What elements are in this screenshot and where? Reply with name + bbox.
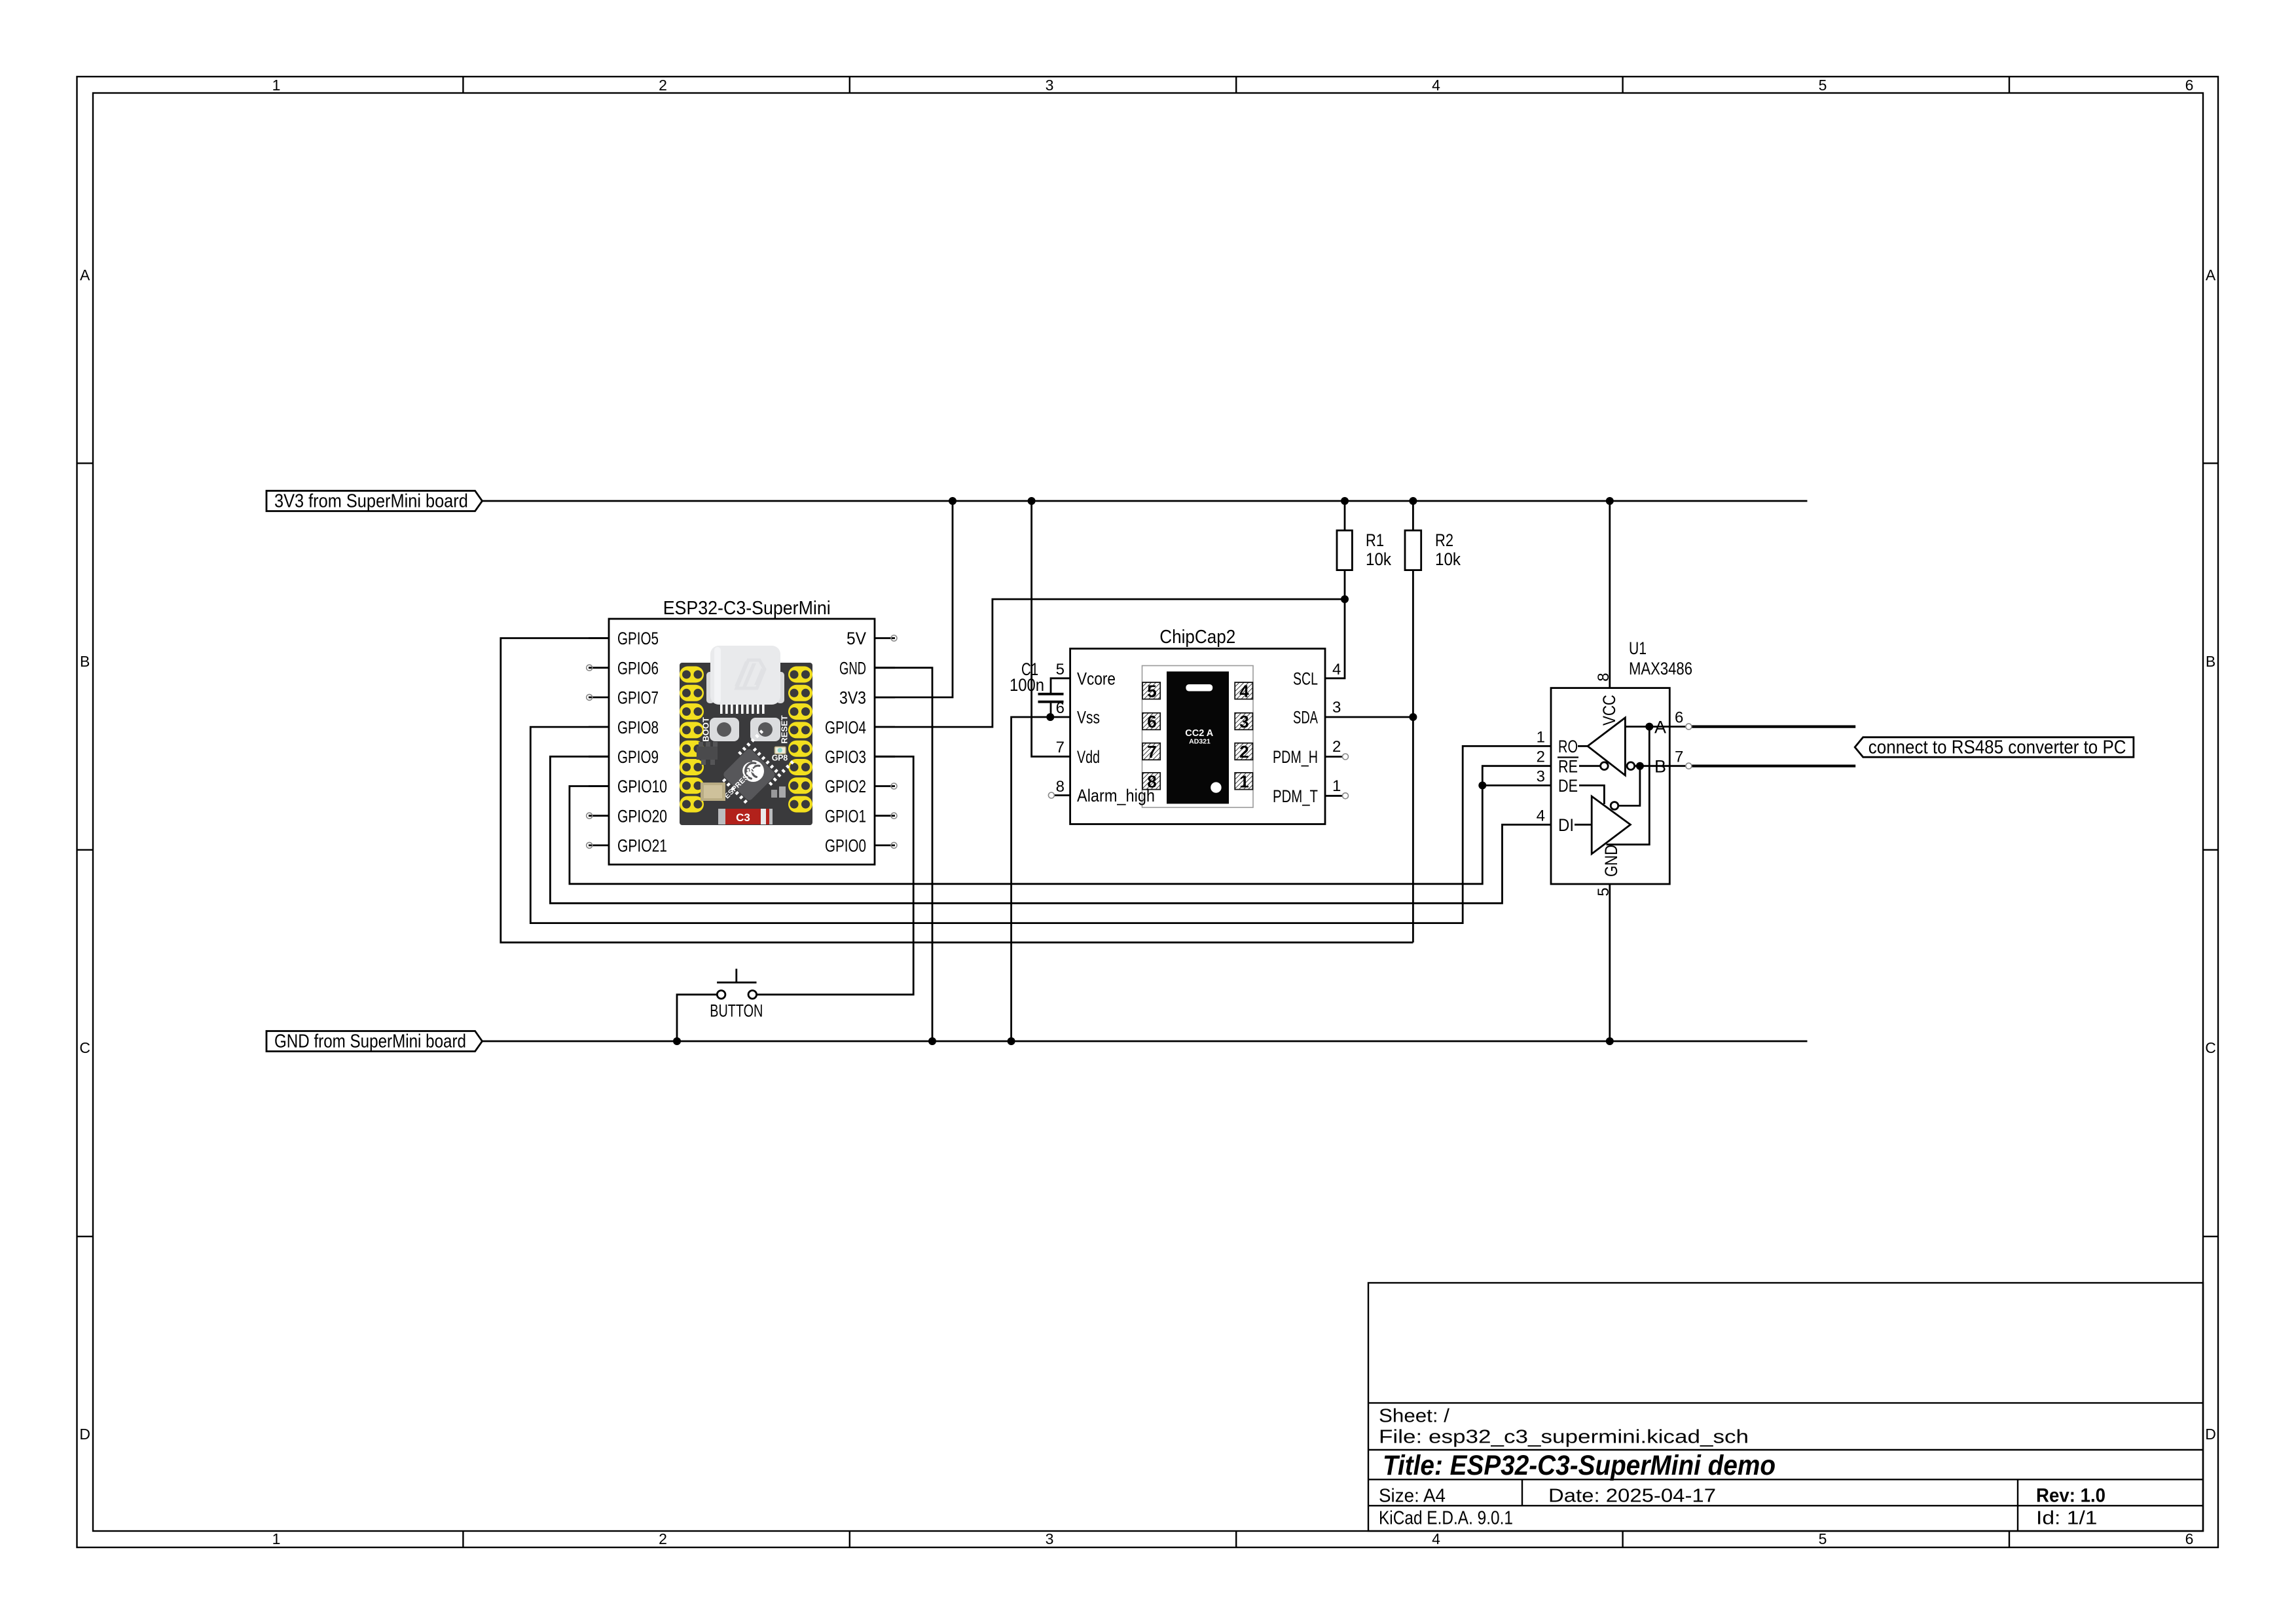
svg-text:8: 8 xyxy=(1056,778,1065,796)
svg-text:Rev: 1.0: Rev: 1.0 xyxy=(2036,1485,2105,1506)
svg-text:3: 3 xyxy=(1046,77,1054,94)
svg-text:1: 1 xyxy=(1239,772,1248,792)
svg-text:KiCad E.D.A. 9.0.1: KiCad E.D.A. 9.0.1 xyxy=(1379,1508,1513,1529)
svg-text:6: 6 xyxy=(2185,77,2194,94)
svg-text:MAX3486: MAX3486 xyxy=(1629,659,1692,678)
svg-text:GND: GND xyxy=(839,658,866,678)
ChipCap2 right pin names xyxy=(1273,669,1318,807)
wire ESP32 GND pin to rail xyxy=(875,668,932,1041)
net label connect to RS485 converter to PC xyxy=(1855,737,2134,758)
junction 3V3 Vdd xyxy=(1028,497,1036,505)
title block divider date xyxy=(1522,1479,1523,1505)
U1 B internal wire xyxy=(1635,765,1670,767)
pin end circle U1 pin6 xyxy=(1686,724,1692,729)
svg-text:Alarm_high: Alarm_high xyxy=(1077,786,1155,805)
ChipCap2 sensor image xyxy=(1142,666,1254,808)
svg-text:10k: 10k xyxy=(1435,549,1461,569)
ESP32 right pin stubs xyxy=(875,638,895,845)
svg-text:1: 1 xyxy=(1537,728,1545,746)
border column tick marks top xyxy=(463,77,2009,93)
svg-text:A: A xyxy=(80,267,90,284)
svg-text:GPIO8: GPIO8 xyxy=(617,718,659,737)
ChipCap2 right pin numbers xyxy=(1332,661,1341,795)
title block divider rev xyxy=(2017,1479,2018,1531)
svg-text:GP8: GP8 xyxy=(772,754,788,763)
svg-text:RE: RE xyxy=(1558,756,1578,776)
pin end circle GPIO0 xyxy=(891,842,897,848)
title block outline xyxy=(1368,1283,2203,1531)
svg-text:SCL: SCL xyxy=(1293,669,1318,689)
pin end circle PDM_H xyxy=(1343,754,1349,760)
net label GND from SuperMini board xyxy=(266,1031,483,1052)
junction SCL R1 xyxy=(1341,595,1349,603)
pin end circle GPIO20 xyxy=(587,813,592,819)
pin end circle U1 pin7 xyxy=(1686,763,1692,769)
svg-text:SDA: SDA xyxy=(1293,708,1318,728)
svg-text:GPIO3: GPIO3 xyxy=(825,747,866,767)
svg-text:7: 7 xyxy=(1056,739,1065,756)
svg-text:3: 3 xyxy=(1046,1530,1054,1547)
junction GND ESP32 xyxy=(928,1037,936,1045)
svg-text:File: esp32_c3_supermini.kicad: File: esp32_c3_supermini.kicad_sch xyxy=(1379,1426,1749,1447)
svg-text:6: 6 xyxy=(1056,699,1065,717)
svg-text:B: B xyxy=(80,653,90,670)
svg-text:Title: ESP32-C3-SuperMini demo: Title: ESP32-C3-SuperMini demo xyxy=(1383,1450,1776,1481)
junction 3V3 U1 xyxy=(1606,497,1614,505)
wire ChipCap2 Vss to rail xyxy=(1011,717,1070,1041)
junction 3V3 R1 xyxy=(1341,497,1349,505)
wire U1 pin6 stub xyxy=(1669,726,1686,728)
svg-text:7: 7 xyxy=(1147,742,1156,762)
U1 receiver buffer xyxy=(1588,718,1625,775)
svg-text:D: D xyxy=(2205,1426,2216,1443)
svg-text:1: 1 xyxy=(272,1530,281,1547)
pin end circle GPIO2 xyxy=(891,783,897,789)
junction GND button xyxy=(673,1037,681,1045)
svg-text:Vdd: Vdd xyxy=(1077,747,1100,767)
wire ChipCap2 SDA xyxy=(1325,716,1413,718)
svg-text:GPIO10: GPIO10 xyxy=(617,777,667,796)
switch SW1 BUTTON xyxy=(717,969,757,999)
wire A to RS485 xyxy=(1692,725,1855,728)
svg-text:GPIO4: GPIO4 xyxy=(825,718,866,737)
U1 DE internal wire xyxy=(1579,785,1604,804)
U1 driver out bubble xyxy=(1611,802,1618,810)
pin end circle GPIO7 xyxy=(587,694,592,700)
wire ESP32 3V3 pin to rail xyxy=(875,501,953,697)
U1 B bubble xyxy=(1627,762,1635,770)
ESP32 left pin stubs xyxy=(589,638,609,845)
svg-text:GND from SuperMini board: GND from SuperMini board xyxy=(274,1031,466,1052)
svg-text:ESP32-C3-SuperMini: ESP32-C3-SuperMini xyxy=(663,598,831,619)
svg-text:2: 2 xyxy=(1537,748,1545,766)
svg-text:Date: 2025-04-17: Date: 2025-04-17 xyxy=(1548,1485,1716,1506)
svg-text:GPIO9: GPIO9 xyxy=(617,747,659,767)
svg-text:4: 4 xyxy=(1332,661,1341,678)
svg-text:RO: RO xyxy=(1558,737,1578,756)
svg-text:Size: A4: Size: A4 xyxy=(1379,1485,1446,1506)
wire 3V3 rail xyxy=(483,500,1808,502)
resistor R1 xyxy=(1337,530,1352,570)
svg-text:D: D xyxy=(79,1426,90,1443)
U1 left pin numbers xyxy=(1537,728,1545,824)
svg-text:GPIO2: GPIO2 xyxy=(825,777,866,796)
wire U1 VCC to rail xyxy=(1609,501,1611,688)
wire U1 GND to rail xyxy=(1609,884,1611,1041)
svg-text:AD321: AD321 xyxy=(1189,738,1211,746)
wire GPIO4 to SCL node xyxy=(875,599,1345,727)
title block row lines xyxy=(1368,1403,2203,1505)
svg-text:U1: U1 xyxy=(1629,638,1647,658)
svg-text:GPIO0: GPIO0 xyxy=(825,836,866,856)
ESP32 board image xyxy=(680,646,812,825)
svg-text:ChipCap2: ChipCap2 xyxy=(1159,627,1235,648)
ESP32 left pin names xyxy=(617,629,667,855)
svg-text:GND: GND xyxy=(1601,845,1621,877)
svg-text:5: 5 xyxy=(1819,1530,1827,1547)
svg-text:R2: R2 xyxy=(1435,530,1453,550)
svg-text:Vss: Vss xyxy=(1077,708,1100,728)
svg-text:GPIO21: GPIO21 xyxy=(617,836,667,856)
U1 A to driver branch xyxy=(1607,727,1650,845)
wire GPIO5 to SDA net xyxy=(501,638,1413,943)
pin end circle GPIO6 xyxy=(587,665,592,671)
svg-text:C: C xyxy=(79,1039,90,1056)
junction RE DE xyxy=(1478,781,1486,789)
svg-text:GPIO6: GPIO6 xyxy=(617,658,659,678)
border row labels right xyxy=(2205,267,2216,1443)
wire U1 DE tap xyxy=(1482,784,1551,786)
pin end circle PDM_T xyxy=(1343,793,1349,799)
ChipCap2 left pin numbers xyxy=(1056,661,1065,796)
junction GND Vss xyxy=(1008,1037,1015,1045)
wire button to GND rail xyxy=(677,995,717,1041)
svg-text:1: 1 xyxy=(272,77,281,94)
U1 driver buffer xyxy=(1592,796,1630,854)
svg-text:7: 7 xyxy=(1675,748,1683,766)
ChipCap2 pin 2 stub xyxy=(1325,756,1343,758)
svg-text:C: C xyxy=(2205,1039,2216,1056)
capacitor C1 xyxy=(1038,678,1070,717)
svg-text:2: 2 xyxy=(1332,738,1341,756)
svg-text:8: 8 xyxy=(1595,673,1613,681)
wire R1 top lead xyxy=(1344,501,1346,530)
pin end circle 5V xyxy=(891,635,897,641)
junction GND U1 xyxy=(1606,1037,1614,1045)
svg-text:2: 2 xyxy=(1239,742,1248,762)
pin end circle GPIO1 xyxy=(891,813,897,819)
junction 3V3 R2 xyxy=(1409,497,1417,505)
svg-text:6: 6 xyxy=(2185,1530,2194,1547)
junction 3V3 ESP32 xyxy=(949,497,957,505)
svg-text:5: 5 xyxy=(1147,682,1156,701)
wire GPIO9 to U1 DI xyxy=(550,756,1551,903)
svg-text:DI: DI xyxy=(1558,815,1574,835)
U1 B to driver branch xyxy=(1618,766,1640,806)
border row tick marks left xyxy=(77,463,94,1236)
svg-text:B: B xyxy=(2206,653,2215,670)
border column labels bottom xyxy=(272,1530,2194,1547)
wire GPIO10 to U1 RE xyxy=(570,766,1551,884)
wire U1 pin7 stub xyxy=(1669,765,1686,767)
junction Vss C1 xyxy=(1046,713,1054,721)
svg-text:Id: 1/1: Id: 1/1 xyxy=(2036,1508,2098,1529)
svg-text:6: 6 xyxy=(1147,712,1156,731)
svg-text:Vcore: Vcore xyxy=(1077,669,1116,689)
svg-text:2: 2 xyxy=(659,1530,667,1547)
svg-text:3: 3 xyxy=(1332,699,1341,716)
svg-text:4: 4 xyxy=(1432,1530,1440,1547)
U1 RO internal wire xyxy=(1578,745,1588,747)
U1 left pin names xyxy=(1558,737,1578,835)
svg-text:5: 5 xyxy=(1819,77,1827,94)
svg-text:PDM_T: PDM_T xyxy=(1273,786,1318,806)
pin end circle GPIO21 xyxy=(587,842,592,848)
svg-text:GPIO7: GPIO7 xyxy=(617,688,659,708)
junction U1 B node xyxy=(1636,762,1644,770)
wire R2 top lead xyxy=(1412,501,1414,530)
ChipCap2 pin 1 stub xyxy=(1325,795,1343,797)
U1 MAX3486 symbol box xyxy=(1551,688,1669,884)
svg-text:BUTTON: BUTTON xyxy=(710,1001,763,1021)
U1 A internal wire xyxy=(1625,726,1669,728)
svg-text:5V: 5V xyxy=(847,629,866,648)
wire GPIO3 to button xyxy=(757,756,914,995)
svg-text:VCC: VCC xyxy=(1599,695,1619,726)
wire B to RS485 xyxy=(1692,765,1855,767)
ChipCap2 pin 8 stub xyxy=(1055,794,1070,796)
wire GPIO8 to U1 RO xyxy=(530,727,1551,923)
ESP32 right pin names xyxy=(825,629,866,855)
net label 3V3 from SuperMini board xyxy=(266,490,483,511)
svg-text:DE: DE xyxy=(1558,776,1578,796)
wire ChipCap2 Vdd to rail xyxy=(1032,501,1070,756)
svg-text:2: 2 xyxy=(659,77,667,94)
svg-text:Sheet: /: Sheet: / xyxy=(1379,1405,1450,1426)
svg-text:RESET: RESET xyxy=(780,715,790,743)
border row tick marks right xyxy=(2203,463,2218,1236)
svg-text:3: 3 xyxy=(1537,767,1545,785)
svg-text:GPIO5: GPIO5 xyxy=(617,629,659,648)
svg-text:4: 4 xyxy=(1239,682,1249,701)
border column labels top xyxy=(272,77,2194,94)
svg-text:R1: R1 xyxy=(1366,530,1384,550)
wire R1 bottom to ChipCap2 SCL xyxy=(1325,570,1345,678)
svg-text:4: 4 xyxy=(1537,807,1545,824)
svg-text:GPIO1: GPIO1 xyxy=(825,806,866,826)
svg-text:4: 4 xyxy=(1432,77,1440,94)
resistor R2 xyxy=(1405,530,1421,570)
ChipCap2 left pin names xyxy=(1077,669,1155,806)
svg-text:3V3 from SuperMini board: 3V3 from SuperMini board xyxy=(274,490,468,511)
ESP32-C3-SuperMini module symbol box xyxy=(609,619,875,864)
svg-text:GPIO20: GPIO20 xyxy=(617,806,667,826)
svg-text:BOOT: BOOT xyxy=(701,717,711,742)
svg-text:PDM_H: PDM_H xyxy=(1273,747,1318,767)
ChipCap2 symbol box xyxy=(1070,649,1325,824)
svg-text:1: 1 xyxy=(1332,777,1341,795)
svg-text:5: 5 xyxy=(1595,887,1613,896)
U1 DI internal wire xyxy=(1575,824,1592,826)
pin end circle Alarm_high xyxy=(1048,792,1054,798)
svg-text:100n: 100n xyxy=(1010,675,1044,695)
U1 RE bubble xyxy=(1601,762,1609,770)
svg-text:3: 3 xyxy=(1239,712,1248,731)
junction U1 A node xyxy=(1645,723,1653,731)
U1 RE internal wire xyxy=(1579,765,1601,767)
U1 RE overline xyxy=(1558,756,1578,758)
svg-text:C3: C3 xyxy=(736,811,750,824)
svg-text:3V3: 3V3 xyxy=(839,688,866,708)
U1 right pin numbers xyxy=(1675,709,1683,766)
svg-text:5: 5 xyxy=(1056,661,1065,678)
border column tick marks bottom xyxy=(463,1531,2009,1547)
junction SDA R2 xyxy=(1409,713,1417,721)
svg-text:10k: 10k xyxy=(1366,549,1391,569)
svg-text:connect to RS485 converter to: connect to RS485 converter to PC xyxy=(1868,737,2126,758)
border row labels left xyxy=(79,267,90,1443)
svg-text:A: A xyxy=(2206,267,2216,284)
wire R2 bottom to GPIO5 net xyxy=(1412,570,1414,943)
wire GND rail xyxy=(483,1041,1808,1043)
svg-text:6: 6 xyxy=(1675,709,1683,727)
